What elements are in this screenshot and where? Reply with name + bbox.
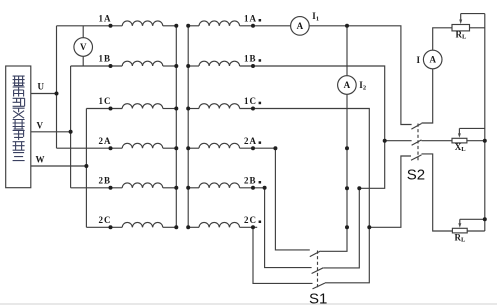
svg-text:V: V	[37, 120, 45, 130]
svg-text:2A: 2A	[244, 136, 257, 146]
svg-text:A: A	[429, 55, 436, 65]
svg-text:A: A	[297, 21, 304, 31]
svg-text:1A: 1A	[99, 14, 112, 24]
svg-text:W: W	[36, 154, 46, 164]
svg-text:A: A	[344, 80, 351, 90]
svg-text:2A: 2A	[99, 136, 112, 146]
svg-text:1C: 1C	[99, 96, 112, 106]
svg-text:1B: 1B	[244, 54, 257, 64]
svg-text:U: U	[38, 82, 46, 92]
svg-text:I: I	[417, 55, 421, 65]
svg-text:2B: 2B	[99, 176, 112, 186]
svg-text:2B: 2B	[244, 176, 257, 186]
svg-text:1A: 1A	[244, 14, 257, 24]
svg-text:1C: 1C	[244, 96, 257, 106]
svg-text:1B: 1B	[99, 54, 112, 64]
svg-text:2C: 2C	[99, 215, 112, 225]
svg-text:S1: S1	[309, 291, 327, 308]
svg-text:S2: S2	[407, 167, 425, 184]
svg-text:V: V	[80, 42, 87, 52]
svg-text:2C: 2C	[244, 215, 257, 225]
